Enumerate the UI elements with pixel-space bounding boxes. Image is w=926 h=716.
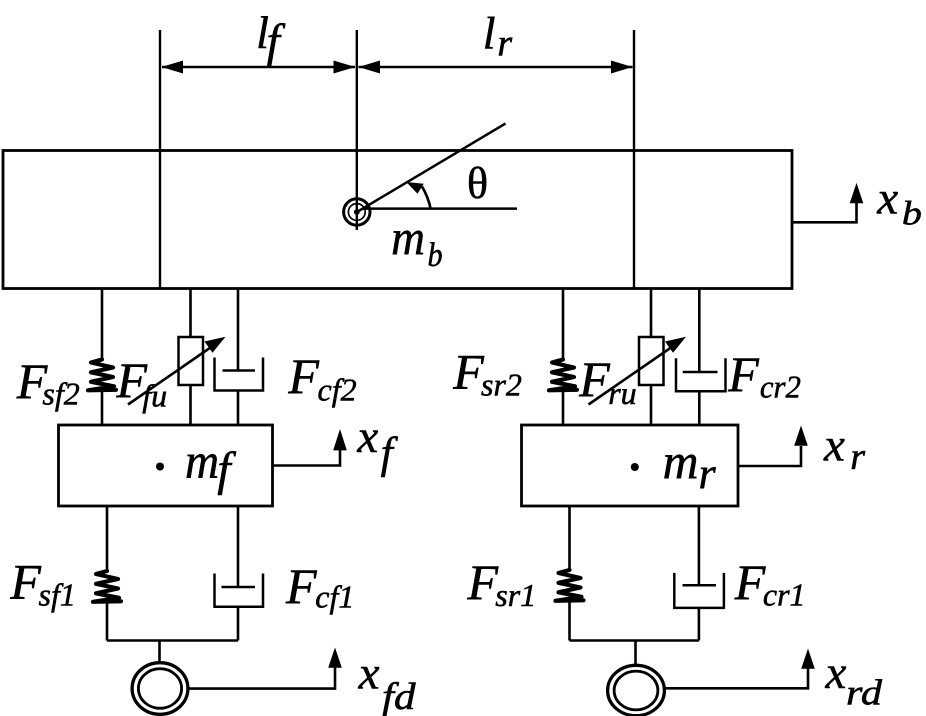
label F_cr2 [727, 346, 801, 405]
svg-text:x: x [823, 420, 845, 472]
svg-text:F: F [734, 554, 766, 610]
label F_cf2 [287, 348, 356, 408]
label x_rd [825, 647, 884, 713]
label F_sr1 [467, 554, 537, 613]
label x_f [356, 411, 398, 478]
svg-text:cr1: cr1 [763, 577, 806, 613]
svg-text:r: r [497, 23, 512, 65]
front lower spring wire [106, 506, 109, 572]
rear upper spring wire [562, 289, 565, 361]
svg-text:x: x [876, 173, 898, 225]
rear wheel [608, 665, 665, 715]
svg-text:F: F [467, 554, 499, 610]
damper F_cr2 cup [676, 358, 726, 391]
x_b arrow [793, 202, 857, 222]
front upper damper rod [237, 289, 240, 371]
body mass rectangle m_b [3, 151, 792, 289]
CG symbol (center of gravity circle) [344, 199, 370, 225]
svg-text:ru: ru [608, 375, 636, 411]
svg-text:x: x [358, 648, 380, 700]
x_f arrow [273, 446, 341, 466]
label m_f [185, 433, 236, 497]
m_r center dot [631, 463, 639, 471]
actuator variable arrow [128, 347, 212, 405]
svg-text:F: F [727, 346, 759, 402]
label F_ru [578, 351, 636, 411]
rear upper damper rod [698, 289, 701, 373]
front wheel [132, 663, 188, 715]
svg-text:fd: fd [382, 676, 417, 716]
svg-text:fu: fu [142, 378, 167, 414]
damper F_cr1 cup [674, 573, 724, 608]
dimension line right (rear axle) [633, 30, 635, 289]
rear lower damper rod [698, 506, 701, 585]
svg-text:r: r [699, 449, 717, 498]
x_fd arrow [190, 667, 336, 689]
m_f center dot [156, 463, 164, 471]
label m_b [391, 209, 443, 274]
svg-text:x: x [356, 411, 378, 463]
x_r arrow [738, 446, 801, 466]
svg-text:F: F [285, 558, 317, 614]
label x_fd [358, 648, 417, 716]
horizontal reference line [363, 207, 517, 210]
front upper spring wire [101, 289, 104, 361]
damper F_cf2 piston [223, 369, 256, 372]
svg-text:m: m [391, 209, 425, 265]
damper F_cf1 cup [215, 574, 264, 607]
spring F_sf1 [93, 571, 121, 602]
spring F_sf2 [88, 360, 116, 391]
damper F_cr2 piston [683, 371, 718, 374]
svg-text:cf1: cf1 [315, 579, 354, 615]
actuator variable arrow [589, 347, 673, 405]
label F_sf1 [9, 554, 75, 613]
svg-text:b: b [428, 237, 443, 274]
svg-text:F: F [9, 554, 41, 610]
pitch angle line [357, 124, 506, 213]
front actuator wire [189, 289, 192, 338]
svg-text:θ: θ [467, 159, 488, 208]
label F_fu [116, 352, 168, 414]
svg-text:F: F [452, 344, 484, 400]
front wheel stub [158, 641, 161, 664]
front bottom link [107, 639, 238, 642]
spring F_sr1 [556, 570, 584, 601]
svg-text:cr2: cr2 [760, 369, 801, 405]
label l_r [483, 8, 513, 65]
front unsprung mass m_f [59, 425, 273, 506]
rear lower spring wire [568, 506, 571, 571]
damper F_cf2 cup [215, 358, 264, 391]
svg-text:cf2: cf2 [318, 372, 357, 408]
rear wheel stub [634, 641, 637, 666]
svg-text:sr2: sr2 [481, 367, 522, 403]
label F_sr2 [452, 344, 522, 403]
svg-text:b: b [902, 196, 922, 233]
dimension arrow l_r [359, 66, 633, 69]
rear unsprung mass m_r [522, 425, 739, 506]
damper F_cr1 piston [683, 584, 717, 587]
svg-text:sf1: sf1 [39, 577, 76, 613]
angle arc theta [422, 187, 431, 210]
dimension arrow l_f [162, 66, 355, 69]
rear bottom link [570, 639, 699, 642]
spring F_sr2 [549, 360, 577, 391]
label x_b [876, 173, 922, 233]
label l_f [256, 7, 285, 68]
damper F_cf1 piston [222, 586, 256, 589]
svg-text:m: m [185, 433, 219, 489]
front lower damper rod [237, 506, 240, 587]
svg-text:sr1: sr1 [495, 577, 536, 613]
svg-text:sf2: sf2 [42, 376, 79, 412]
dimension line left (front axle) [159, 30, 161, 289]
svg-text:l: l [483, 8, 496, 59]
label F_sf2 [16, 353, 80, 412]
label m_r [663, 433, 717, 498]
svg-text:r: r [850, 436, 865, 478]
svg-text:F: F [287, 348, 319, 404]
x_rd arrow [666, 668, 809, 688]
svg-text:x: x [825, 647, 847, 699]
label x_r [823, 420, 865, 479]
svg-text:m: m [663, 433, 699, 489]
svg-text:F: F [578, 351, 610, 407]
svg-text:rd: rd [846, 673, 883, 713]
dimension line center (CG) [356, 30, 358, 230]
label F_cf1 [285, 558, 354, 615]
actuator F_ru box [639, 337, 664, 385]
rear actuator wire [650, 289, 653, 338]
label F_cr1 [734, 554, 806, 613]
actuator F_fu box [179, 337, 204, 385]
